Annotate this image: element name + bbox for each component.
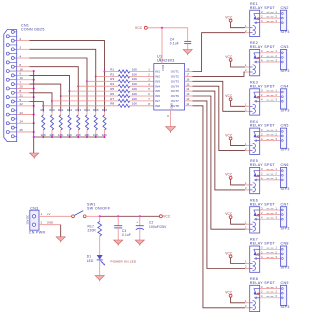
svg-text:+V: +V: [47, 212, 51, 216]
svg-text:GND: GND: [170, 103, 174, 109]
svg-text:IN5: IN5: [155, 89, 160, 93]
svg-text:15: 15: [186, 82, 190, 86]
svg-text:CN7: CN7: [281, 202, 289, 206]
svg-text:SIP3: SIP3: [281, 187, 290, 191]
svg-text:10K: 10K: [132, 92, 137, 96]
svg-text:10K: 10K: [132, 72, 137, 76]
svg-text:IN8: IN8: [155, 104, 160, 108]
svg-text:R15: R15: [93, 108, 99, 112]
svg-text:RELAY SPDT: RELAY SPDT: [250, 281, 276, 285]
svg-text:VCC: VCC: [225, 173, 233, 177]
svg-text:R13: R13: [76, 108, 82, 112]
svg-text:IN1: IN1: [155, 70, 160, 74]
svg-text:RELAY SPDT: RELAY SPDT: [250, 6, 276, 10]
svg-text:10K: 10K: [132, 82, 137, 86]
svg-text:10: 10: [158, 58, 162, 61]
svg-text:CN8: CN8: [281, 242, 289, 246]
svg-text:IN3: IN3: [155, 79, 160, 83]
svg-text:R5: R5: [110, 87, 114, 91]
svg-text:16: 16: [186, 77, 190, 81]
svg-text:COM: COM: [161, 65, 165, 71]
svg-text:IN4: IN4: [155, 84, 160, 88]
svg-text:10K: 10K: [132, 102, 137, 106]
svg-text:OUT4: OUT4: [171, 84, 179, 88]
svg-text:R11: R11: [58, 108, 64, 112]
svg-text:R6: R6: [110, 92, 114, 96]
svg-text:10K: 10K: [132, 97, 137, 101]
svg-text:GND: GND: [47, 220, 53, 224]
svg-text:SIP3: SIP3: [281, 148, 290, 152]
svg-text:0.1uF: 0.1uF: [122, 233, 131, 237]
svg-text:VCC: VCC: [225, 251, 233, 255]
svg-text:OUT3: OUT3: [171, 79, 179, 83]
svg-text:14: 14: [186, 87, 190, 91]
svg-text:SW ON/OFF: SW ON/OFF: [87, 207, 111, 211]
svg-text:VCC: VCC: [225, 133, 233, 137]
svg-text:11: 11: [186, 102, 189, 106]
svg-text:SIP3: SIP3: [281, 30, 290, 34]
svg-text:CN6: CN6: [281, 163, 289, 167]
svg-text:10K: 10K: [132, 77, 137, 81]
svg-text:VCC: VCC: [163, 215, 171, 219]
svg-text:R16: R16: [102, 108, 108, 112]
svg-text:IN2: IN2: [155, 75, 160, 79]
svg-text:VCC: VCC: [135, 26, 143, 30]
svg-text:12: 12: [186, 97, 190, 101]
svg-text:CN4: CN4: [281, 84, 289, 88]
svg-text:18: 18: [186, 68, 190, 72]
svg-text:R7: R7: [110, 97, 114, 101]
svg-text:OUT1: OUT1: [171, 70, 179, 74]
svg-text:OUT5: OUT5: [171, 89, 179, 93]
svg-text:OUT6: OUT6: [171, 94, 179, 98]
svg-text:10K: 10K: [132, 67, 137, 71]
svg-text:RELAY SPDT: RELAY SPDT: [250, 163, 276, 167]
svg-text:VCC: VCC: [225, 94, 233, 98]
svg-text:17: 17: [186, 73, 190, 77]
svg-text:10K: 10K: [132, 87, 137, 91]
svg-text:RELAY SPDT: RELAY SPDT: [250, 84, 276, 88]
svg-text:POWER ON LED: POWER ON LED: [111, 260, 137, 264]
svg-text:R12: R12: [67, 108, 73, 112]
svg-text:SIP3: SIP3: [281, 108, 290, 112]
svg-text:R1: R1: [110, 67, 114, 71]
svg-text:100uF/25V: 100uF/25V: [149, 225, 167, 229]
svg-text:R10: R10: [49, 108, 55, 112]
svg-text:0.1uF: 0.1uF: [170, 42, 179, 46]
svg-text:VCC: VCC: [225, 55, 233, 59]
svg-text:SIP3: SIP3: [281, 266, 290, 270]
svg-text:CN9: CN9: [281, 281, 289, 285]
svg-text:12V DC: 12V DC: [25, 215, 29, 225]
svg-text:RELAY SPDT: RELAY SPDT: [250, 242, 276, 246]
svg-text:CN5: CN5: [281, 124, 289, 128]
svg-text:OUT7: OUT7: [171, 99, 179, 103]
svg-text:VCC: VCC: [225, 16, 233, 20]
svg-text:VCC: VCC: [225, 212, 233, 216]
svg-text:CONN DB25: CONN DB25: [21, 27, 45, 31]
svg-text:IN6: IN6: [155, 94, 160, 98]
svg-text:CN2: CN2: [281, 6, 289, 10]
svg-text:SIP3: SIP3: [281, 226, 290, 230]
svg-text:R3: R3: [110, 77, 114, 81]
svg-text:RELAY SPDT: RELAY SPDT: [250, 45, 276, 49]
svg-text:VCC: VCC: [225, 291, 233, 295]
svg-text:R8: R8: [110, 102, 114, 106]
svg-text:13: 13: [186, 92, 190, 96]
svg-text:IN7: IN7: [155, 99, 160, 103]
svg-text:220R: 220R: [88, 229, 97, 233]
svg-text:RELAY SPDT: RELAY SPDT: [250, 202, 276, 206]
svg-text:RELAY SPDT: RELAY SPDT: [250, 124, 276, 128]
svg-text:CN3: CN3: [281, 45, 289, 49]
svg-text:D1: D1: [87, 255, 92, 259]
svg-text:+: +: [136, 220, 138, 224]
svg-text:CN PWR: CN PWR: [29, 230, 46, 234]
svg-text:R14: R14: [84, 108, 90, 112]
svg-text:R2: R2: [110, 72, 114, 76]
svg-text:LED: LED: [87, 259, 94, 263]
svg-text:R4: R4: [110, 82, 114, 86]
svg-text:OUT2: OUT2: [171, 75, 179, 79]
svg-text:SIP3: SIP3: [281, 305, 290, 309]
svg-text:R9: R9: [41, 108, 45, 112]
svg-text:SIP3: SIP3: [281, 69, 290, 73]
